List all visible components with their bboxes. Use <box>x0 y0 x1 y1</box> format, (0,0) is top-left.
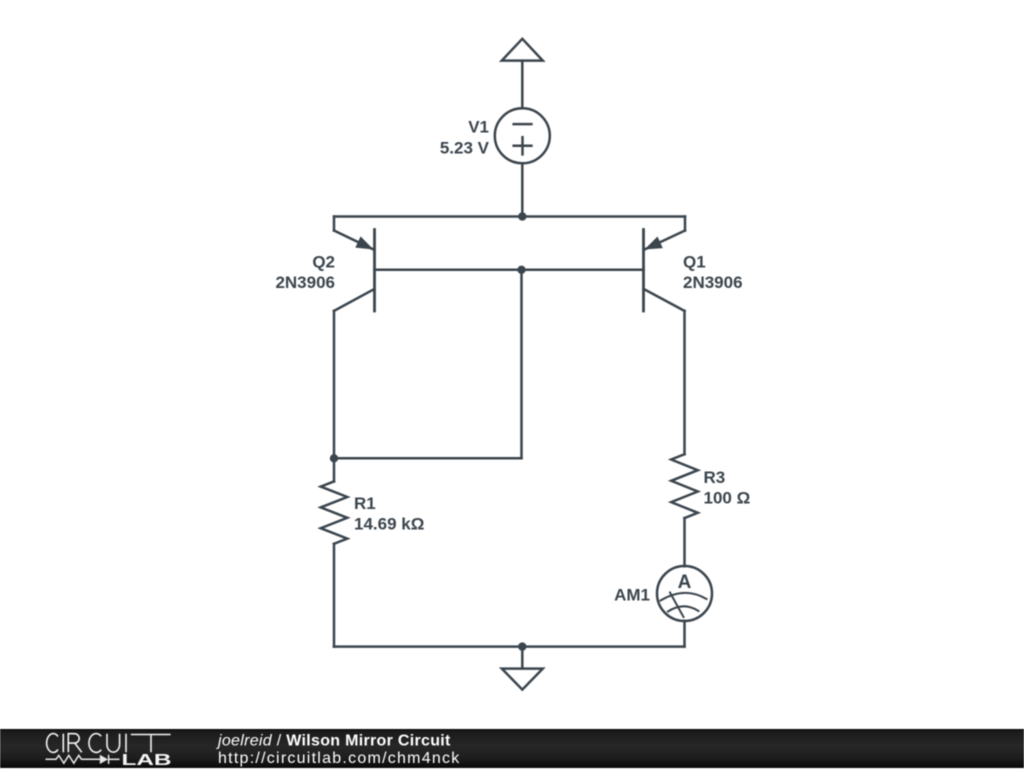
wire base rail Q2 to Q1 <box>375 269 644 272</box>
power supply V+ flag <box>502 39 543 109</box>
svg-text:R1: R1 <box>354 494 376 513</box>
svg-text:14.69 kΩ: 14.69 kΩ <box>354 514 424 533</box>
resistor R3 <box>671 454 698 518</box>
resistor R1 <box>321 458 348 544</box>
wire R1 bottom lead <box>333 544 336 647</box>
svg-text:R3: R3 <box>704 468 726 487</box>
ammeter AM1 <box>657 566 712 621</box>
svg-text:Q1: Q1 <box>683 253 706 272</box>
voltage source V1 <box>495 108 550 163</box>
CircuitLab logo LAB wordmark <box>122 752 172 769</box>
svg-text:5.23 V: 5.23 V <box>440 139 490 158</box>
svg-text:AM1: AM1 <box>614 586 650 605</box>
svg-text:Q2: Q2 <box>312 253 335 272</box>
CircuitLab logo CIRCUIT wordmark <box>47 734 171 753</box>
transistor Q1 2N3906 (PNP) <box>644 217 686 455</box>
node ground junction <box>518 642 526 650</box>
wire feedback horizontal <box>334 457 522 460</box>
footer bar <box>0 729 1024 768</box>
ground <box>502 647 543 690</box>
wire feedback vertical <box>520 270 523 459</box>
footer title joelreid / Wilson Mirror Circuit <box>216 732 461 767</box>
svg-text:V1: V1 <box>468 117 489 136</box>
svg-text:LAB: LAB <box>122 752 172 768</box>
node base rail / feedback junction <box>517 266 525 274</box>
svg-text:http://circuitlab.com/chm4nck: http://circuitlab.com/chm4nck <box>218 750 461 767</box>
CircuitLab logo resistor-diode glyph <box>46 755 120 764</box>
svg-text:100 Ω: 100 Ω <box>704 489 751 508</box>
wire bottom rail <box>334 645 685 648</box>
svg-text:A: A <box>678 572 692 593</box>
svg-text:2N3906: 2N3906 <box>275 273 335 292</box>
wire R3 to AM1 <box>683 518 686 566</box>
transistor Q2 2N3906 (PNP) <box>334 217 375 459</box>
svg-text:2N3906: 2N3906 <box>683 273 743 292</box>
wire AM1 to bottom rail <box>683 621 686 647</box>
node V1/emitter rail junction <box>518 212 526 220</box>
svg-text:joelreid / Wilson Mirror Circu: joelreid / Wilson Mirror Circuit <box>216 732 451 749</box>
node Q2 collector / R1 junction <box>330 454 338 462</box>
wire V1 to emitter rail <box>521 163 524 216</box>
wire emitter rail <box>334 215 685 218</box>
